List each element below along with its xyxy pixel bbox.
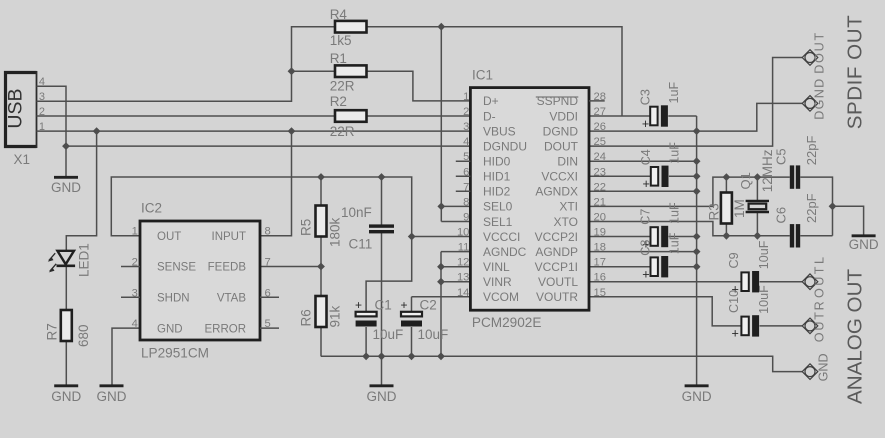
- svg-text:22pF: 22pF: [804, 193, 819, 223]
- svg-text:DGNDU: DGNDU: [483, 139, 527, 153]
- svg-text:25: 25: [594, 136, 606, 148]
- svg-text:IC1: IC1: [472, 68, 493, 83]
- svg-text:10: 10: [457, 227, 469, 239]
- wire C1 bottom lead: [365, 327, 367, 356]
- ground GND at LED/R7: [51, 386, 81, 404]
- junction xtal line R3 top: [723, 173, 731, 181]
- IC2 pin names: [157, 231, 246, 335]
- pad GND analog out: [802, 364, 818, 380]
- svg-text:3: 3: [463, 121, 469, 133]
- wire xtal gnd to GND symbol: [833, 206, 864, 236]
- junction dgnd DIN pin24: [693, 157, 701, 165]
- svg-text:SSPND: SSPND: [537, 94, 579, 108]
- junction dgnd C4 VCCXI: [693, 172, 701, 180]
- wire C8 to ground bus: [669, 266, 697, 268]
- capacitor C5 22pF: [790, 165, 800, 188]
- svg-text:1: 1: [463, 91, 469, 103]
- wire R5 top lead: [320, 177, 322, 206]
- junction xtal bottom Q1: [754, 232, 762, 240]
- resistor R6 91k: [316, 296, 327, 327]
- svg-text:ANALOG OUT: ANALOG OUT: [844, 269, 867, 404]
- svg-text:DIN: DIN: [557, 154, 578, 168]
- svg-text:10nF: 10nF: [341, 205, 372, 220]
- svg-text:19: 19: [594, 227, 606, 239]
- svg-text:VCCCI: VCCCI: [483, 230, 520, 244]
- svg-text:3: 3: [132, 287, 138, 299]
- svg-text:LED1: LED1: [77, 243, 92, 277]
- junction aground C2: [408, 352, 416, 360]
- svg-text:C2: C2: [420, 298, 437, 313]
- svg-text:OUT: OUT: [157, 231, 181, 243]
- svg-text:5: 5: [463, 151, 469, 163]
- svg-text:DGND: DGND: [543, 124, 579, 138]
- svg-text:AGNDC: AGNDC: [483, 245, 527, 259]
- junction D+ at R1 left: [288, 67, 296, 75]
- junction VINL pin12: [437, 263, 445, 271]
- svg-text:+: +: [355, 298, 362, 312]
- wire R4 right to VDDI rail and SEL pullup: [367, 27, 623, 116]
- capacitor C10 10uF: [741, 315, 759, 336]
- svg-text:GND: GND: [51, 180, 81, 195]
- wire C11 top lead: [381, 177, 383, 225]
- wire C10 to OUTR pad: [760, 325, 803, 327]
- wire SEL bus vertical to SEL0/SEL1: [441, 27, 470, 222]
- IC2 pin numbers: [132, 226, 271, 330]
- svg-text:17: 17: [594, 257, 606, 269]
- svg-text:DOUT: DOUT: [812, 33, 826, 74]
- wire VCCP2I pin19 to C7: [589, 236, 651, 238]
- wire C11 bottom lead to analog ground: [381, 233, 383, 386]
- wire R3 top lead: [725, 177, 727, 192]
- wire AGNDP pin18 to ground bus: [589, 251, 697, 253]
- svg-text:HID2: HID2: [483, 185, 511, 199]
- junction xtal line Q1 top: [754, 173, 762, 181]
- svg-text:5: 5: [265, 318, 271, 330]
- ground GND analog: [367, 386, 397, 404]
- junction SEL0 pin8: [437, 203, 445, 211]
- crystal Q1 12MHz: [746, 201, 769, 212]
- wire AGNDC/VINL/VINR bus: [441, 252, 470, 357]
- svg-text:18: 18: [594, 242, 606, 254]
- svg-text:22: 22: [594, 181, 606, 193]
- connector X1 USB body: [6, 71, 37, 148]
- svg-text:X1: X1: [14, 152, 31, 167]
- svg-text:SEL0: SEL0: [483, 200, 513, 214]
- svg-text:10uF: 10uF: [757, 240, 771, 269]
- resistor R2 22R: [335, 110, 367, 122]
- svg-text:VDDI: VDDI: [549, 109, 578, 123]
- svg-text:2: 2: [463, 106, 469, 118]
- svg-text:VCCP2I: VCCP2I: [535, 230, 578, 244]
- junction dgnd C7 VCCP2I: [693, 233, 701, 241]
- svg-text:7: 7: [265, 257, 271, 269]
- wire VCCCI pin10 stub: [412, 236, 471, 238]
- junction VINR pin13: [437, 278, 445, 286]
- junction aground C1: [362, 352, 370, 360]
- svg-text:11: 11: [458, 242, 470, 254]
- junction VBUS to IC2 INPUT branch: [288, 127, 296, 135]
- svg-text:VOUTR: VOUTR: [536, 290, 578, 304]
- svg-text:28: 28: [594, 91, 606, 103]
- IC1 pin names: [483, 94, 579, 304]
- svg-text:OUTR: OUTR: [812, 301, 826, 342]
- svg-text:22R: 22R: [330, 79, 355, 94]
- junction dgnd AGNDP pin18: [693, 248, 701, 256]
- regulator IC2 body: [140, 221, 260, 340]
- junction VBUS to LED branch: [93, 127, 101, 135]
- svg-text:15: 15: [594, 287, 606, 299]
- svg-text:SENSE: SENSE: [157, 262, 196, 274]
- svg-text:AGNDX: AGNDX: [535, 185, 578, 199]
- svg-text:XTI: XTI: [559, 200, 578, 214]
- svg-text:R3: R3: [707, 203, 722, 220]
- capacitor C2 10uF: [401, 312, 422, 327]
- svg-text:VTAB: VTAB: [217, 293, 247, 305]
- wire VDDI pin27 to C3: [589, 115, 650, 117]
- resistor R4 1k5: [335, 21, 367, 33]
- svg-text:24: 24: [594, 151, 606, 163]
- svg-text:10uF: 10uF: [373, 327, 404, 342]
- pad OUTL: [802, 274, 818, 290]
- wire D+ net: USB pin3 to R1/R4 left: [37, 27, 336, 102]
- svg-text:C11: C11: [349, 237, 373, 252]
- svg-text:C7: C7: [639, 209, 653, 225]
- wire DIN pin24 to ground bus: [589, 160, 697, 162]
- svg-text:SPDIF OUT: SPDIF OUT: [844, 15, 867, 129]
- svg-text:20: 20: [594, 211, 606, 223]
- IC1 pin numbers: [457, 91, 606, 299]
- svg-text:8: 8: [463, 196, 469, 208]
- svg-text:VCOM: VCOM: [483, 290, 519, 304]
- junction rail at R5 top: [317, 173, 325, 181]
- wire C6 right to xtal gnd: [800, 235, 832, 237]
- svg-text:10uF: 10uF: [418, 327, 449, 342]
- svg-text:+: +: [732, 327, 739, 341]
- svg-text:27: 27: [594, 106, 606, 118]
- svg-text:16: 16: [594, 272, 606, 284]
- wire analog ground line: [321, 356, 802, 371]
- svg-text:IC2: IC2: [141, 201, 162, 216]
- svg-text:OUTL: OUTL: [812, 257, 826, 298]
- svg-text:C8: C8: [639, 240, 653, 256]
- LED LED1: [48, 251, 75, 273]
- svg-text:C5: C5: [774, 148, 789, 165]
- svg-text:8: 8: [265, 226, 271, 238]
- wire XTI pin21 to crystal top line: [589, 177, 790, 206]
- wire D- net: USB pin2 through R2 to IC1 pin2: [37, 115, 471, 117]
- capacitor C7 1uF: [651, 226, 669, 247]
- IC1 SSPND overline: [536, 96, 579, 98]
- junction xtal bottom R3: [723, 232, 731, 240]
- pad DGND: [802, 96, 818, 112]
- svg-text:13: 13: [457, 272, 469, 284]
- capacitor C1 10uF: [356, 312, 377, 327]
- svg-text:180k: 180k: [328, 217, 343, 247]
- capacitor C11 10nF: [369, 224, 394, 233]
- wire Q1 bottom lead: [756, 212, 758, 236]
- svg-text:+: +: [401, 298, 408, 312]
- resistor R3 1M: [721, 193, 732, 224]
- junction aground C11/GND: [378, 352, 386, 360]
- svg-text:GND: GND: [157, 323, 183, 335]
- wire DOUT pin25 to SPDIF out pad: [589, 58, 802, 147]
- svg-text:1uF: 1uF: [667, 202, 681, 224]
- svg-text:DOUT: DOUT: [544, 139, 579, 153]
- svg-text:ERROR: ERROR: [204, 323, 246, 335]
- IC1 pin stubs unconnected: [456, 101, 605, 191]
- svg-text:1uF: 1uF: [667, 232, 681, 254]
- wire R3 bottom lead: [725, 221, 727, 236]
- svg-text:1uF: 1uF: [667, 81, 681, 103]
- ground GND at IC2: [97, 386, 127, 404]
- svg-text:6: 6: [463, 166, 469, 178]
- svg-text:R1: R1: [330, 51, 347, 66]
- svg-text:6: 6: [265, 287, 271, 299]
- wire digital ground bus vertical: [696, 116, 698, 386]
- connector X1 pin numbers 4 3 2 1: [39, 76, 45, 133]
- wire VBUS down to LED1: [66, 131, 96, 250]
- junction R4 net to SEL bus: [437, 23, 445, 31]
- wire C7 to ground bus: [669, 236, 697, 238]
- svg-text:22R: 22R: [330, 124, 355, 139]
- pad DOUT: [802, 50, 818, 66]
- wire C2 bottom lead: [411, 327, 413, 356]
- svg-text:R2: R2: [330, 94, 347, 109]
- svg-text:VOUTL: VOUTL: [538, 275, 578, 289]
- capacitor C6 22pF: [790, 224, 800, 247]
- wire R6 bottom to analog ground line: [320, 327, 322, 356]
- codec IC1 body: [470, 88, 589, 311]
- capacitor C9 10uF: [741, 271, 759, 292]
- wire VCCXI pin23 to C4: [589, 175, 651, 177]
- svg-text:GND: GND: [367, 389, 397, 404]
- wire VCCP1I pin17 to C8: [589, 266, 651, 268]
- svg-text:1: 1: [132, 226, 138, 238]
- svg-text:VINL: VINL: [483, 260, 510, 274]
- svg-text:R4: R4: [330, 7, 348, 22]
- svg-text:12: 12: [457, 257, 469, 269]
- svg-text:4: 4: [463, 136, 469, 148]
- svg-text:10uF: 10uF: [757, 285, 771, 314]
- svg-text:VCCP1I: VCCP1I: [535, 260, 578, 274]
- svg-text:LP2951CM: LP2951CM: [141, 346, 209, 361]
- svg-text:C9: C9: [727, 252, 741, 268]
- wire IC2 GND pin4 to ground: [112, 328, 140, 386]
- capacitor C4 1uF: [651, 166, 669, 187]
- svg-text:DGND: DGND: [812, 79, 826, 120]
- wire C3 to digital ground bus: [668, 115, 696, 117]
- wire FEEDB to R5/R6 divider: [260, 237, 321, 297]
- wire Q1 top lead: [756, 177, 758, 201]
- svg-text:7: 7: [463, 181, 469, 193]
- junction xtal gnd: [829, 202, 837, 210]
- svg-text:USB: USB: [5, 88, 27, 128]
- wire VBUS down to IC2 pin8 INPUT: [260, 131, 292, 236]
- svg-text:SEL1: SEL1: [483, 215, 513, 229]
- wire C4 to ground bus: [669, 175, 697, 177]
- wire VOUTL pin16 to C9: [589, 281, 741, 283]
- wire AGNDX pin22 to ground bus: [589, 190, 697, 192]
- junction rail at C11 top: [378, 173, 386, 181]
- IC2 pin stubs unconnected: [121, 267, 279, 329]
- svg-text:AGNDP: AGNDP: [535, 245, 578, 259]
- svg-text:D+: D+: [483, 94, 499, 108]
- resistor R5 180k: [316, 206, 327, 237]
- capacitor C3 1uF: [650, 105, 668, 126]
- wire IC2 OUT to 3.3V rail: [111, 177, 411, 312]
- resistor R7 680: [61, 310, 72, 341]
- svg-text:1M: 1M: [732, 199, 747, 218]
- svg-text:D-: D-: [483, 109, 496, 123]
- svg-text:21: 21: [594, 196, 606, 208]
- svg-text:INPUT: INPUT: [212, 231, 247, 243]
- ground GND at crystal: [849, 236, 879, 252]
- svg-text:1k5: 1k5: [330, 33, 352, 48]
- svg-text:VCCXI: VCCXI: [541, 170, 578, 184]
- junction dgnd DGND pin26: [693, 127, 701, 135]
- svg-text:FEEDB: FEEDB: [208, 262, 247, 274]
- junction divider FEEDB: [317, 263, 325, 271]
- svg-text:SHDN: SHDN: [157, 293, 190, 305]
- capacitor C8 1uF: [651, 256, 669, 277]
- junction rail at VCCCI pin10: [408, 233, 416, 241]
- svg-text:GND: GND: [682, 389, 712, 404]
- wire VCOM pin14 to C2: [412, 297, 471, 312]
- svg-text:22pF: 22pF: [804, 136, 819, 166]
- svg-text:VINR: VINR: [483, 275, 512, 289]
- wire VOUTR pin15 to C10: [589, 297, 741, 326]
- svg-text:9: 9: [463, 211, 469, 223]
- svg-text:26: 26: [594, 121, 606, 133]
- svg-text:C10: C10: [727, 290, 741, 313]
- svg-text:R6: R6: [299, 309, 314, 326]
- svg-text:XTO: XTO: [554, 215, 578, 229]
- svg-text:PCM2902E: PCM2902E: [472, 315, 542, 330]
- svg-text:+: +: [643, 177, 650, 191]
- junction USB ground: [62, 142, 70, 150]
- svg-text:HID0: HID0: [483, 154, 511, 168]
- junction dgnd C8 VCCP1I: [693, 263, 701, 271]
- svg-text:HID1: HID1: [483, 170, 511, 184]
- svg-text:R7: R7: [45, 323, 60, 340]
- svg-text:VBUS: VBUS: [483, 124, 516, 138]
- svg-text:GND: GND: [849, 237, 879, 252]
- wire DGND pin26 to SPDIF ground pad: [589, 103, 802, 131]
- wire VBUS net: USB pin1 to IC1 pin3: [37, 130, 471, 132]
- svg-text:Q1: Q1: [738, 172, 753, 189]
- wire LED1 cathode to R7 to ground: [65, 266, 67, 386]
- ground GND digital: [682, 386, 712, 404]
- svg-text:12MHz: 12MHz: [760, 149, 775, 192]
- wire D+ from R1 to IC1 pin1: [367, 71, 471, 101]
- svg-text:23: 23: [594, 166, 606, 178]
- wire C5 right to xtal gnd: [800, 177, 832, 236]
- svg-text:14: 14: [457, 287, 469, 299]
- junction aground VIN bus: [437, 352, 445, 360]
- svg-text:C3: C3: [638, 89, 652, 105]
- junction dgnd AGNDX pin22: [693, 187, 701, 195]
- svg-text:C1: C1: [375, 298, 392, 313]
- svg-text:+: +: [642, 117, 649, 131]
- svg-text:C6: C6: [774, 207, 789, 224]
- svg-text:680: 680: [76, 324, 91, 347]
- wire C9 to OUTL pad: [760, 281, 803, 283]
- svg-text:1uF: 1uF: [668, 142, 682, 164]
- wire DGNDU net: IC1 pin4 to USB pin4 and GND: [37, 86, 471, 177]
- svg-text:GND: GND: [817, 353, 831, 381]
- svg-text:+: +: [642, 268, 649, 282]
- svg-text:GND: GND: [51, 389, 81, 404]
- svg-text:2: 2: [132, 257, 138, 269]
- resistor R1 22R: [335, 65, 367, 77]
- wire R1 left lead at y71: [292, 70, 336, 72]
- ground GND at USB: [51, 177, 81, 195]
- svg-text:91k: 91k: [328, 305, 343, 327]
- pad OUTR: [802, 318, 818, 334]
- svg-text:GND: GND: [97, 389, 127, 404]
- svg-text:4: 4: [132, 318, 138, 330]
- svg-text:C4: C4: [639, 149, 653, 165]
- svg-text:R5: R5: [299, 219, 314, 236]
- wire XTO pin20 to crystal bottom line: [589, 222, 790, 236]
